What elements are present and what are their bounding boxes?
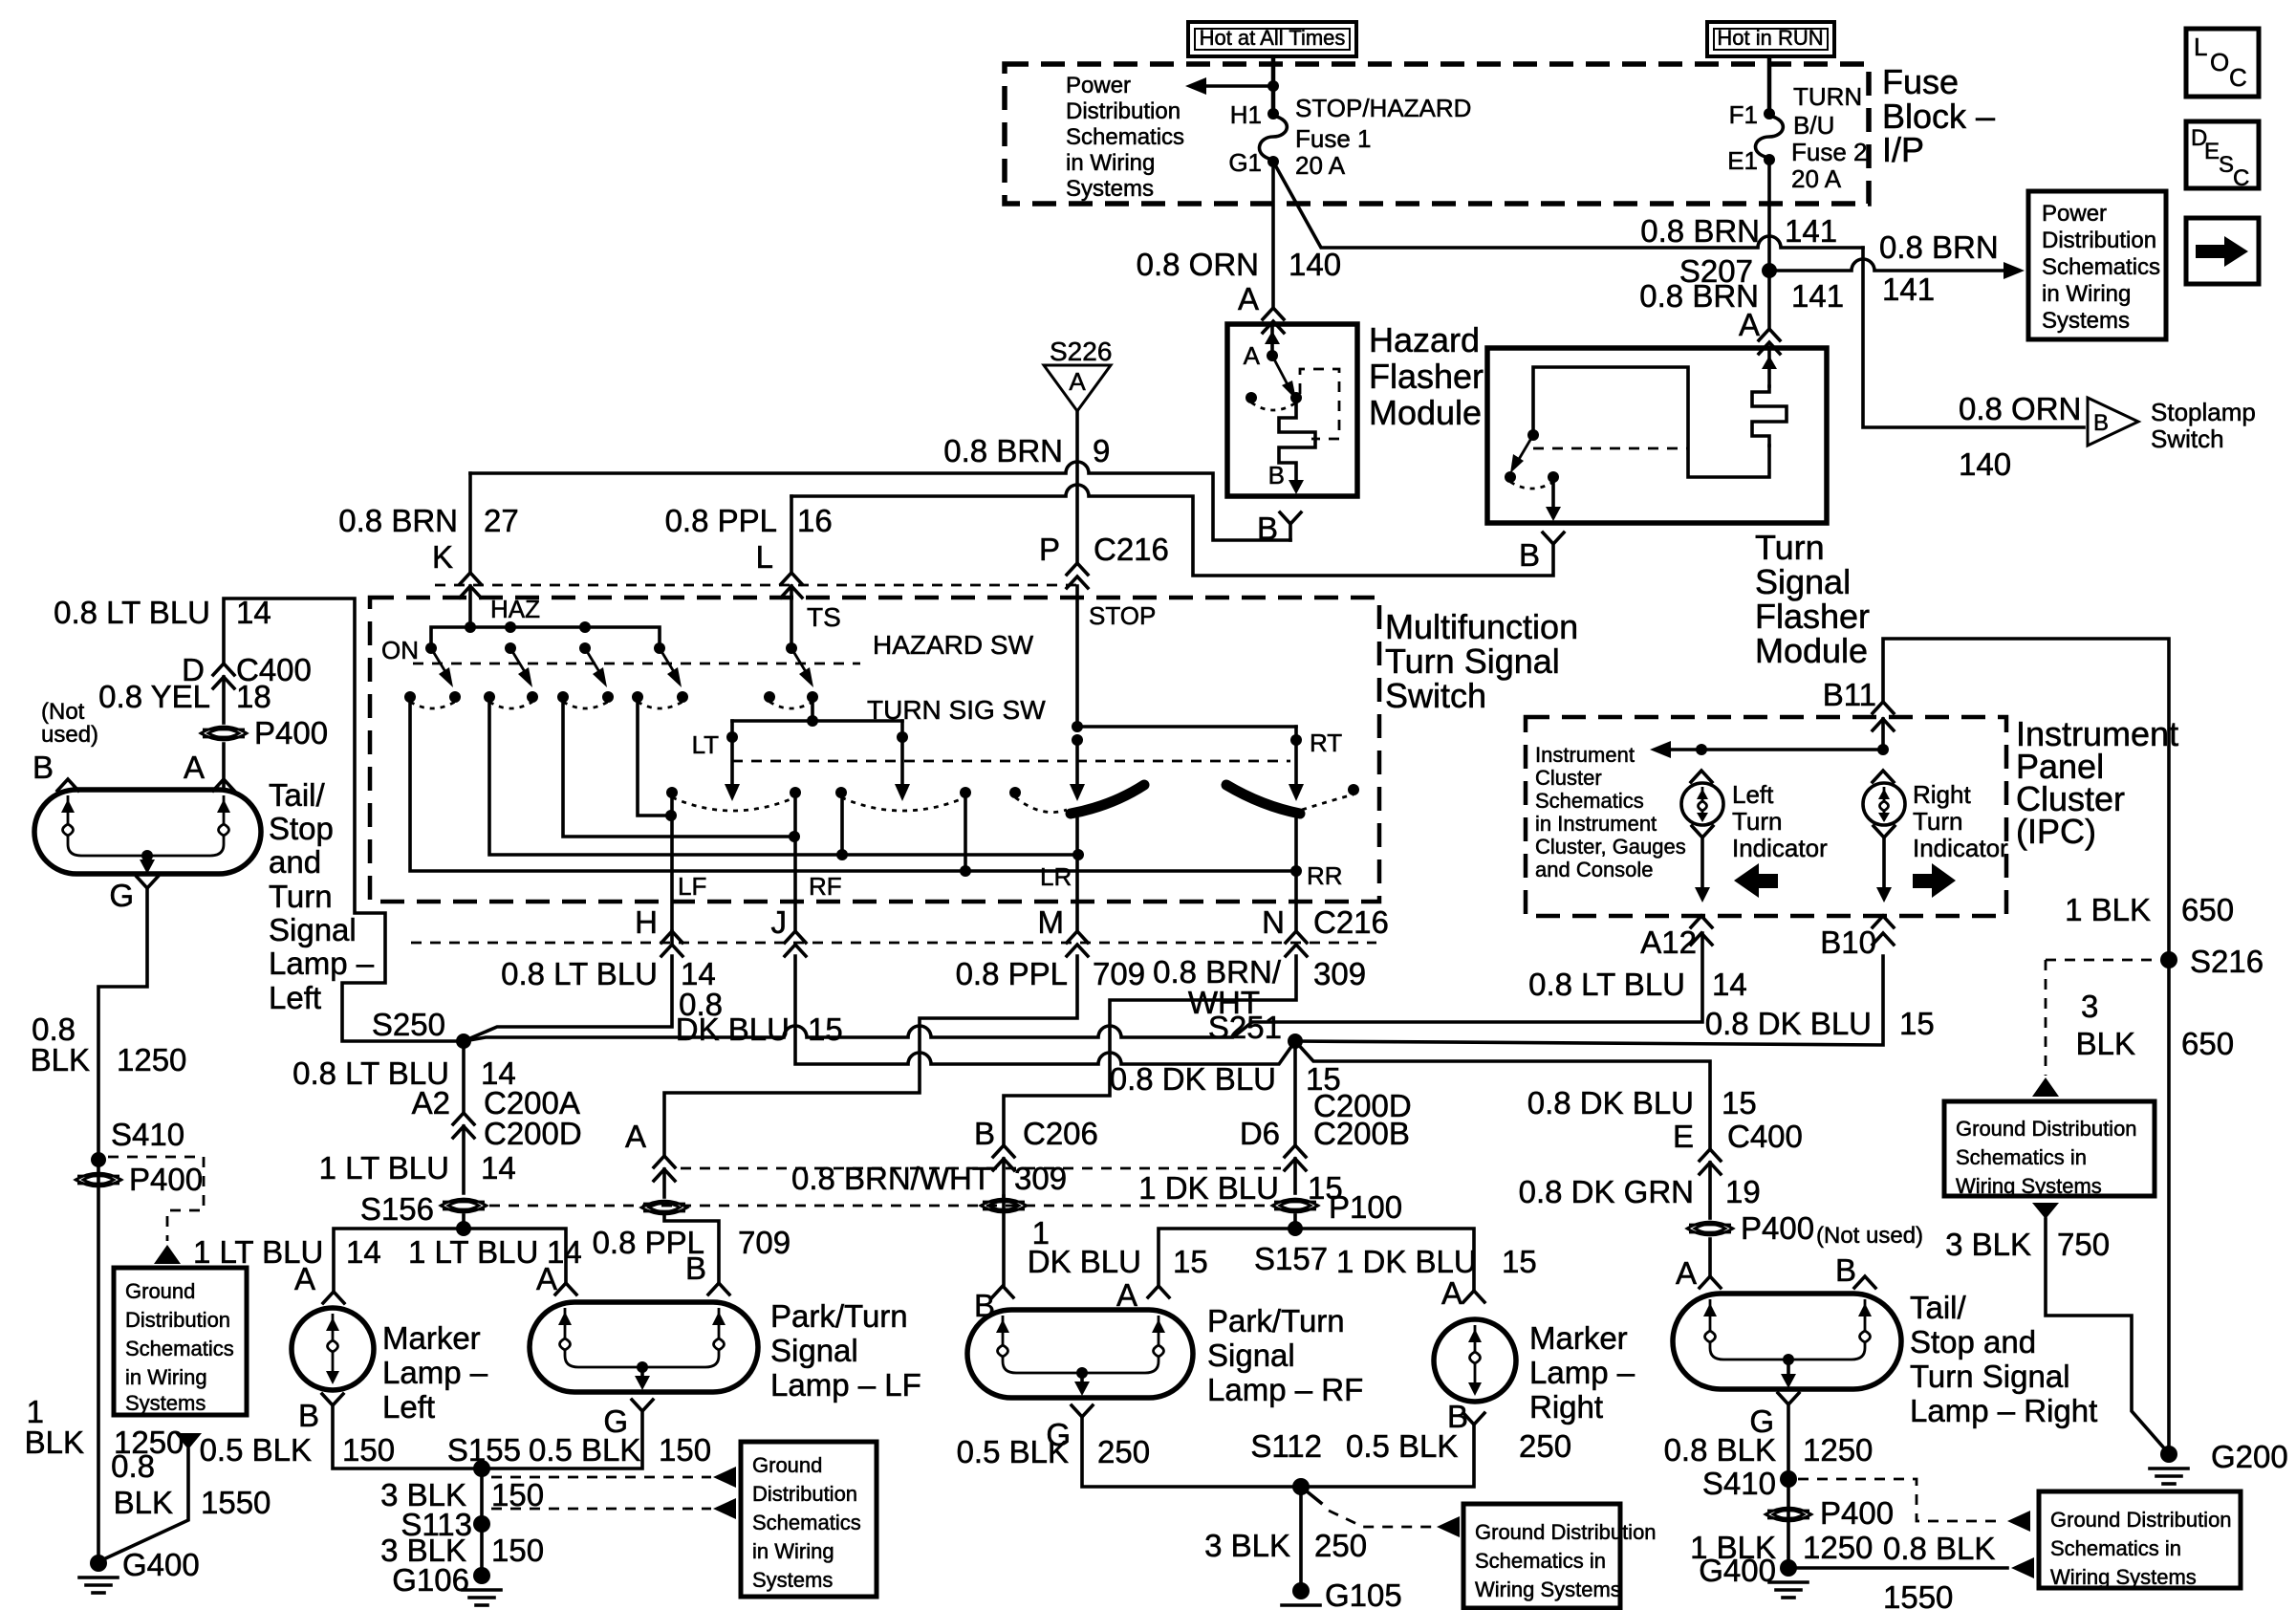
svg-text:B: B xyxy=(685,1251,706,1286)
svg-text:1250: 1250 xyxy=(1803,1432,1873,1468)
labels 1 DK BLU 15 (RF A) xyxy=(1028,1215,1208,1313)
tail right ground junction xyxy=(1781,1354,1796,1388)
bus stack1 to RR xyxy=(410,697,1302,877)
svg-text:0.8 LT BLU: 0.8 LT BLU xyxy=(501,956,658,991)
B11 pin xyxy=(1823,677,1894,750)
svg-text:and Console: and Console xyxy=(1535,858,1654,881)
svg-text:B/U: B/U xyxy=(1793,111,1834,140)
label 0.5 BLK 250 xyxy=(957,1434,1150,1469)
wire S207 right to power distribution ref xyxy=(1769,229,2025,307)
svg-text:15: 15 xyxy=(808,1012,843,1047)
svg-text:G400: G400 xyxy=(1699,1553,1776,1588)
svg-text:Left: Left xyxy=(1732,780,1774,809)
left turn indicator lamp xyxy=(1681,771,1723,903)
svg-text:141: 141 xyxy=(1785,213,1837,249)
svg-text:E1: E1 xyxy=(1727,146,1758,175)
LF lamp B chevron xyxy=(708,1283,729,1295)
node H1 xyxy=(1230,100,1279,129)
power distribution schematics box (right) xyxy=(2028,191,2166,339)
TSF relay inner rectangle xyxy=(1533,367,1769,477)
svg-text:DK BLU: DK BLU xyxy=(1028,1244,1141,1279)
svg-text:15: 15 xyxy=(1502,1244,1537,1279)
HAZARD SW dashed row xyxy=(413,630,1034,664)
label 3 BLK 650 xyxy=(2076,989,2234,1061)
LF G chevron xyxy=(603,1400,653,1439)
svg-text:S: S xyxy=(2219,152,2234,178)
svg-text:F1: F1 xyxy=(1729,100,1758,129)
svg-text:Hazard: Hazard xyxy=(1369,320,1480,359)
wire S155 to S113 to G106 xyxy=(480,1469,484,1576)
svg-text:140: 140 xyxy=(1289,247,1341,282)
svg-text:Right: Right xyxy=(1529,1389,1603,1425)
svg-text:Marker: Marker xyxy=(1529,1320,1628,1356)
svg-text:0.8 BRN: 0.8 BRN xyxy=(1879,229,1999,265)
svg-text:Lamp – Right: Lamp – Right xyxy=(1910,1393,2097,1428)
svg-text:Schematics in: Schematics in xyxy=(1475,1549,1606,1573)
RT feed line xyxy=(1077,727,1342,801)
svg-text:Lamp – LF: Lamp – LF xyxy=(770,1367,921,1403)
ground distribution box bottom right xyxy=(2039,1491,2241,1589)
S157 tee under P100 xyxy=(1159,1215,1474,1291)
svg-text:150: 150 xyxy=(491,1477,544,1512)
svg-text:A12: A12 xyxy=(1640,925,1697,960)
TSF switch arm xyxy=(1510,429,1539,473)
wire top outline from D up over to S250 riser xyxy=(224,598,456,1041)
node G400 left xyxy=(79,1547,200,1593)
svg-text:Systems: Systems xyxy=(2042,308,2130,334)
marker right B chevron xyxy=(1447,1399,1484,1434)
svg-text:G400: G400 xyxy=(122,1547,200,1582)
svg-text:TS: TS xyxy=(807,602,841,632)
svg-text:RF: RF xyxy=(809,872,842,901)
svg-text:15: 15 xyxy=(1173,1244,1208,1279)
svg-text:Turn: Turn xyxy=(1755,528,1825,567)
svg-text:E: E xyxy=(2204,139,2220,164)
svg-text:Switch: Switch xyxy=(1385,676,1486,715)
wire corner down to stoplamp switch branch xyxy=(1863,248,2084,427)
wire H to S250 xyxy=(464,931,672,1041)
svg-text:0.5 BLK: 0.5 BLK xyxy=(200,1432,312,1468)
hazard heater resistor xyxy=(1279,398,1315,488)
svg-text:Lamp –: Lamp – xyxy=(382,1355,488,1390)
right arrow symbol xyxy=(1913,863,1956,898)
svg-text:150: 150 xyxy=(659,1432,711,1468)
hazard module pin A internals xyxy=(1244,326,1280,370)
wire LT right contact down xyxy=(840,793,844,855)
svg-text:(Not used): (Not used) xyxy=(1816,1223,1923,1249)
pin B (not used) xyxy=(32,750,78,791)
label 0.8 DK BLU 15 E C400 xyxy=(1527,1085,1803,1154)
svg-text:1 LT BLU: 1 LT BLU xyxy=(408,1234,538,1270)
svg-text:Park/Turn: Park/Turn xyxy=(1207,1303,1345,1338)
B10 pin xyxy=(1820,916,1894,960)
labels 1 DK BLU 15 (marker right A) xyxy=(1336,1244,1537,1311)
fuse 2 value labels xyxy=(1791,82,1868,193)
IPC internal feed arrow xyxy=(1650,741,1889,758)
svg-text:0.8 BLK: 0.8 BLK xyxy=(1664,1432,1776,1468)
marker right filament xyxy=(1468,1325,1482,1396)
right turn indicator lamp xyxy=(1863,771,1905,903)
svg-text:0.8 DK BLU: 0.8 DK BLU xyxy=(1705,1006,1872,1041)
svg-text:DK BLU: DK BLU xyxy=(676,1012,790,1047)
svg-text:16: 16 xyxy=(797,503,833,538)
svg-text:Wiring Systems: Wiring Systems xyxy=(1475,1577,1621,1601)
marker right label xyxy=(1529,1320,1635,1425)
node G105 xyxy=(1282,1577,1402,1610)
svg-text:Signal: Signal xyxy=(1207,1338,1295,1373)
svg-text:S410: S410 xyxy=(1702,1466,1776,1501)
svg-text:C206: C206 xyxy=(1023,1116,1098,1151)
multifunction switch dashed box xyxy=(370,598,1379,902)
svg-text:B: B xyxy=(2093,410,2109,436)
svg-text:P100: P100 xyxy=(1329,1189,1402,1225)
P400 connector bottom right xyxy=(1765,1495,1894,1531)
svg-text:M: M xyxy=(1038,904,1065,940)
wire S250 to A12 (0.8 LT BLU 14) xyxy=(464,933,1702,1041)
svg-text:Turn Signal: Turn Signal xyxy=(1910,1359,2070,1394)
svg-text:(IPC): (IPC) xyxy=(2016,812,2096,851)
node G106 xyxy=(392,1562,501,1605)
svg-text:B: B xyxy=(298,1398,319,1433)
svg-text:G: G xyxy=(109,878,134,913)
svg-text:G106: G106 xyxy=(392,1562,469,1598)
turn signal contact row mid group xyxy=(835,787,971,811)
svg-text:Lamp – RF: Lamp – RF xyxy=(1207,1372,1363,1407)
svg-text:LF: LF xyxy=(678,872,706,901)
HAZ bus xyxy=(431,621,660,648)
svg-text:Tail/: Tail/ xyxy=(269,777,326,813)
svg-text:Ground Distribution: Ground Distribution xyxy=(1475,1520,1657,1544)
svg-text:A: A xyxy=(1238,281,1259,316)
hazard switch stack 1 xyxy=(404,642,461,708)
TS common tee xyxy=(732,697,902,727)
node E1 xyxy=(1727,146,1775,175)
wire PPL lens to LF B xyxy=(664,1215,719,1283)
svg-text:K: K xyxy=(432,539,453,575)
svg-text:140: 140 xyxy=(1959,446,2011,482)
fuse F1 STOP/HAZARD Fuse 1 20A xyxy=(1260,116,1288,160)
svg-text:A2: A2 xyxy=(412,1085,450,1120)
RT arm xyxy=(895,721,910,801)
TSF pin A internal arrow + resistor xyxy=(1752,350,1787,446)
svg-text:BLK: BLK xyxy=(2076,1026,2135,1061)
svg-text:750: 750 xyxy=(2057,1227,2110,1262)
label 0.8 BLK 1250 xyxy=(1664,1432,1874,1468)
marker lamp left circle xyxy=(292,1308,374,1390)
svg-text:0.8 LT BLU: 0.8 LT BLU xyxy=(1528,967,1685,1002)
svg-text:STOP/HAZARD: STOP/HAZARD xyxy=(1295,94,1471,122)
svg-text:RR: RR xyxy=(1307,861,1343,890)
label 0.8 LT BLU 14 (A12) xyxy=(1528,967,1747,1002)
wire RF G to S112 xyxy=(1082,1417,1301,1487)
svg-text:Turn: Turn xyxy=(1732,807,1783,836)
tail/stop lamp left stadium xyxy=(34,790,261,874)
LT arm xyxy=(692,721,740,801)
svg-text:Schematics in: Schematics in xyxy=(2050,1536,2181,1560)
svg-text:Systems: Systems xyxy=(1066,176,1154,202)
svg-text:H1: H1 xyxy=(1230,100,1262,129)
wire TSF B to L (turn signal feed) xyxy=(791,485,1553,576)
wire S112 to marker right B xyxy=(1301,1425,1474,1487)
P400 connector (upper left) xyxy=(201,715,328,751)
tail/stop lamp right stadium xyxy=(1673,1294,1901,1389)
node S155 xyxy=(447,1432,521,1477)
wire D to P400 xyxy=(222,677,226,723)
wire G to S410 right xyxy=(1787,1404,1790,1479)
svg-text:141: 141 xyxy=(1791,278,1844,314)
svg-text:Wiring Systems: Wiring Systems xyxy=(1956,1174,2102,1198)
marker lamp right circle xyxy=(1434,1319,1516,1402)
svg-text:Indicator: Indicator xyxy=(1913,834,2008,862)
svg-text:Fuse: Fuse xyxy=(1882,62,1959,101)
wire E to P400 right xyxy=(1708,1163,1712,1218)
node S112 xyxy=(1250,1428,1322,1495)
svg-text:0.8 DK GRN: 0.8 DK GRN xyxy=(1519,1174,1694,1209)
svg-text:E: E xyxy=(1673,1119,1694,1154)
ground distribution box left xyxy=(114,1268,247,1415)
label 0.8 PPL 709 (LF B) xyxy=(593,1225,791,1286)
label 0.8 DK GRN 19 xyxy=(1519,1174,1761,1209)
svg-text:1 DK BLU: 1 DK BLU xyxy=(1336,1244,1477,1279)
park/turn RF stadium xyxy=(967,1310,1193,1398)
svg-text:9: 9 xyxy=(1093,433,1110,468)
marker left B chevron xyxy=(298,1394,343,1433)
S251 down to D6 xyxy=(1293,1041,1297,1145)
left arrow symbol xyxy=(1734,863,1778,898)
wire labels below pins xyxy=(501,954,1366,1047)
marker left label xyxy=(382,1320,488,1425)
stoplamp switch triangle B xyxy=(2088,398,2256,453)
svg-text:S112: S112 xyxy=(1250,1428,1322,1464)
DESC box xyxy=(2186,121,2259,191)
P400 connector right (not used) xyxy=(1687,1210,1923,1249)
svg-text:1 LT BLU: 1 LT BLU xyxy=(193,1234,323,1270)
svg-text:Schematics: Schematics xyxy=(2042,254,2160,280)
svg-text:LR: LR xyxy=(1040,862,1072,891)
dashed reference from S410 xyxy=(108,1157,204,1264)
svg-text:18: 18 xyxy=(236,679,271,714)
node S216 xyxy=(2160,944,2264,979)
node F1 xyxy=(1729,100,1775,129)
A chevron (C200 left) xyxy=(625,1119,675,1197)
svg-text:D6: D6 xyxy=(1240,1116,1280,1151)
svg-text:O: O xyxy=(2210,48,2229,76)
left turn indicator text xyxy=(1732,780,1828,862)
hazard B exit arrow xyxy=(1268,461,1304,494)
svg-text:1250: 1250 xyxy=(117,1042,186,1077)
svg-text:3 BLK: 3 BLK xyxy=(1945,1227,2031,1262)
park/turn RF label xyxy=(1207,1303,1363,1407)
wire 750 to G200 xyxy=(2046,1219,2166,1450)
svg-text:Switch: Switch xyxy=(2151,424,2224,453)
svg-text:Multifunction: Multifunction xyxy=(1385,607,1578,646)
svg-text:G105: G105 xyxy=(1325,1577,1402,1610)
svg-text:0.5 BLK: 0.5 BLK xyxy=(957,1434,1069,1469)
svg-text:ON: ON xyxy=(381,636,419,664)
label 3 BLK 750 xyxy=(1945,1227,2110,1262)
ground distribution box upper right xyxy=(1944,1101,2155,1198)
label 0.5 BLK 150 xyxy=(200,1432,395,1468)
node G1 xyxy=(1228,148,1279,177)
svg-text:Ground Distribution: Ground Distribution xyxy=(1956,1117,2137,1141)
label 0.8 BLK 1250 xyxy=(31,1012,187,1077)
wire S207 down to turn signal flasher A (0.8 BRN 141) xyxy=(1767,271,1771,329)
svg-text:14: 14 xyxy=(481,1150,516,1186)
svg-text:0.8 YEL: 0.8 YEL xyxy=(98,679,210,714)
svg-text:3: 3 xyxy=(2081,989,2098,1024)
BRN/WHT pass-through connector xyxy=(981,1199,1027,1212)
label 3 BLK 250 xyxy=(1204,1528,1367,1563)
svg-text:709: 709 xyxy=(738,1225,791,1260)
wire P400 to lamp A xyxy=(222,744,226,790)
wire mid right contact down xyxy=(964,793,967,871)
wire J to S251 to E C400 xyxy=(795,956,1710,1149)
node S113 xyxy=(401,1507,490,1542)
RR output wire to N pin xyxy=(1262,811,1389,956)
wire G down to S410 xyxy=(98,888,147,1152)
svg-text:Fuse 2: Fuse 2 xyxy=(1791,138,1868,166)
svg-text:0.8: 0.8 xyxy=(111,1448,155,1484)
svg-text:P400: P400 xyxy=(129,1162,203,1197)
svg-text:Distribution: Distribution xyxy=(1066,98,1180,124)
svg-text:0.8 DK BLU: 0.8 DK BLU xyxy=(1110,1061,1276,1097)
STOP wire xyxy=(1070,586,1156,801)
svg-text:Cluster, Gauges: Cluster, Gauges xyxy=(1535,835,1686,859)
svg-text:Tail/: Tail/ xyxy=(1910,1290,1967,1325)
svg-text:0.8 ORN: 0.8 ORN xyxy=(1959,391,2081,426)
svg-text:Schematics: Schematics xyxy=(1066,124,1184,150)
svg-text:A: A xyxy=(536,1261,557,1296)
long connector dashed line C216 bottom xyxy=(411,942,1376,945)
svg-text:Schematics: Schematics xyxy=(1535,789,1644,813)
svg-text:N: N xyxy=(1262,904,1285,940)
IPC label xyxy=(2016,714,2178,851)
svg-text:1550: 1550 xyxy=(1883,1579,1953,1610)
RT dashed arc to RR contact xyxy=(1302,784,1359,810)
label 0.8 DK BLU 15 / C200D C200B (D6) xyxy=(1110,1061,1412,1151)
connector chevrons into TSF module xyxy=(1759,329,1780,354)
node S410 left xyxy=(91,1117,184,1167)
IPC cluster note xyxy=(1535,743,1686,881)
svg-text:14: 14 xyxy=(1712,967,1747,1002)
svg-text:Signal: Signal xyxy=(269,912,357,947)
RF output wire to J pin xyxy=(771,793,842,956)
label 0.8 BRN 9 xyxy=(943,433,1110,468)
svg-text:TURN: TURN xyxy=(1793,82,1862,111)
node S410 right xyxy=(1702,1466,1797,1501)
G pin chevron xyxy=(109,877,158,913)
svg-text:Systems: Systems xyxy=(752,1568,833,1592)
hazard B pin chevron xyxy=(1257,511,1301,546)
LF output wire to H pin xyxy=(635,793,706,956)
bus stack3 to RF xyxy=(563,697,800,842)
dashed reference S216 xyxy=(2032,960,2158,1097)
svg-text:L: L xyxy=(2194,33,2207,61)
svg-text:in Wiring: in Wiring xyxy=(1066,150,1155,176)
svg-text:C200B: C200B xyxy=(1313,1116,1410,1151)
750 wire reference triangle xyxy=(2032,1203,2059,1219)
node S250 xyxy=(372,1007,471,1049)
marker left A chevron xyxy=(323,1292,344,1303)
svg-text:HAZ: HAZ xyxy=(490,595,540,623)
svg-text:0.8 BRN/WHT: 0.8 BRN/WHT xyxy=(791,1161,991,1196)
svg-text:0.8 LT BLU: 0.8 LT BLU xyxy=(54,595,210,630)
svg-text:A: A xyxy=(625,1119,646,1154)
label 0.8 BLK 1550 xyxy=(111,1448,271,1520)
S226 triangle xyxy=(1044,337,1112,411)
svg-text:Schematics in: Schematics in xyxy=(1956,1145,2087,1169)
svg-text:Turn Signal: Turn Signal xyxy=(1385,642,1560,681)
svg-text:Right: Right xyxy=(1913,780,1971,809)
svg-text:27: 27 xyxy=(484,503,519,538)
turn signal contact row LT group xyxy=(666,787,801,811)
label 0.8 YEL 18 xyxy=(98,679,271,714)
L pin 0.8 PPL 16 xyxy=(665,496,833,648)
svg-text:1250: 1250 xyxy=(1803,1530,1873,1565)
P400 connector (lower left) xyxy=(76,1162,203,1197)
svg-text:15: 15 xyxy=(1899,1006,1935,1041)
tail right label xyxy=(1910,1290,2097,1428)
svg-text:in Instrument: in Instrument xyxy=(1535,812,1657,836)
svg-text:Hot in RUN: Hot in RUN xyxy=(1717,26,1823,50)
lamp left filaments xyxy=(61,795,230,856)
C200 connector dashed row xyxy=(681,1167,1281,1170)
Tail/Stop label left xyxy=(269,777,375,1015)
connector chevrons P C216 xyxy=(1039,532,1169,588)
arrow box xyxy=(2186,218,2259,284)
svg-text:A: A xyxy=(1441,1275,1462,1311)
svg-text:Ground Distribution: Ground Distribution xyxy=(2050,1508,2232,1532)
LR output wire to M pin xyxy=(1038,811,1089,956)
svg-text:S251: S251 xyxy=(1208,1010,1282,1045)
TSF contacts xyxy=(1505,471,1559,489)
svg-text:250: 250 xyxy=(1314,1528,1367,1563)
park/turn LF label xyxy=(770,1298,921,1403)
svg-text:B: B xyxy=(1835,1252,1856,1288)
svg-text:Flasher: Flasher xyxy=(1369,357,1484,396)
svg-text:Indicator: Indicator xyxy=(1732,834,1828,862)
labels 14 / 1 LT BLU / 14 (lamp feeds) xyxy=(294,1234,582,1296)
svg-text:L: L xyxy=(756,539,773,575)
E C400 chevrons xyxy=(1700,1149,1721,1174)
node G200 xyxy=(2150,1439,2288,1484)
node S207 xyxy=(1679,253,1777,289)
svg-text:I/P: I/P xyxy=(1882,130,1924,169)
svg-text:Stoplamp: Stoplamp xyxy=(2151,398,2256,426)
hazard switch arm xyxy=(1272,356,1296,400)
svg-text:0.8 PPL: 0.8 PPL xyxy=(665,503,777,538)
svg-text:BLK: BLK xyxy=(25,1425,84,1460)
svg-text:Module: Module xyxy=(1755,631,1868,670)
svg-text:C400: C400 xyxy=(1727,1119,1803,1154)
svg-text:Instrument: Instrument xyxy=(1535,743,1635,767)
svg-text:Signal: Signal xyxy=(770,1333,858,1368)
LF filaments xyxy=(558,1308,726,1367)
ground distribution box mid-right xyxy=(1463,1504,1657,1608)
connector chevrons into hazard flasher xyxy=(1263,308,1284,333)
svg-text:S156: S156 xyxy=(360,1191,434,1227)
svg-text:C: C xyxy=(2233,165,2249,191)
tail right G chevron xyxy=(1749,1393,1799,1439)
svg-text:S250: S250 xyxy=(372,1007,445,1042)
svg-text:150: 150 xyxy=(342,1432,395,1468)
label 0.5 BLK 150 (right) xyxy=(529,1432,711,1468)
svg-text:G200: G200 xyxy=(2211,1439,2288,1474)
wire hot-in-run feed xyxy=(1767,56,1772,114)
svg-text:250: 250 xyxy=(1097,1434,1150,1469)
svg-text:A: A xyxy=(184,750,205,785)
fuse 1 value labels xyxy=(1295,94,1471,180)
